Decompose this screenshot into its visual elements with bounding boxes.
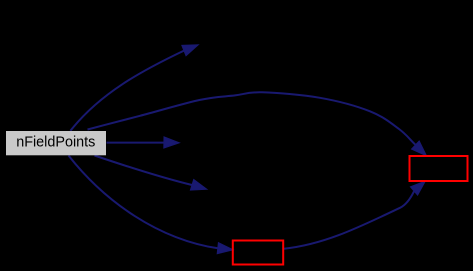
wire: edge from nFieldPoints up to top arrow [70,45,198,131]
wire: horizontal edge from nFieldPoints to middle hidden node [107,137,180,148]
wire: edge from bottom red node to right red node [284,181,425,249]
node: right red box (truncated node) [410,156,468,181]
svg-text:nFieldPoints: nFieldPoints [16,135,95,151]
node nFieldPoints (current node, grey) [6,131,106,155]
wire: diagonal edge from nFieldPoints to lower hidden node [95,156,207,191]
wire: long edge from nFieldPoints to right red node (top) [88,92,427,156]
node: bottom red box (truncated node) [233,241,283,265]
wire: edge from nFieldPoints down to bottom red node [69,156,234,254]
